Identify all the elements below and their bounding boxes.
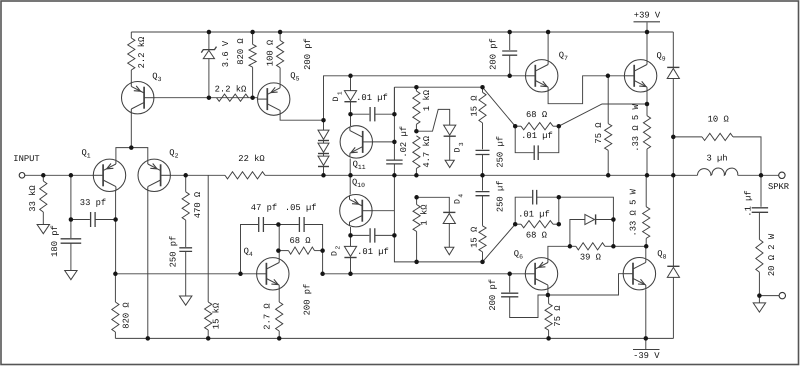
diode parallel 39 Ω (585, 214, 595, 224)
svg-text:D: D (454, 147, 463, 152)
arrow under D4 (445, 247, 454, 255)
node .01µf spine (392, 112, 397, 117)
wire Q8 collector (645, 246, 647, 258)
wire (759, 295, 779, 297)
resistor .33 Ω 5 W bottom (643, 207, 650, 239)
node emitter tie (129, 145, 134, 150)
resistor 820 Ω top (249, 44, 256, 67)
svg-text:47 pf: 47 pf (251, 203, 277, 213)
node 68Ω top left (513, 124, 518, 129)
wire mid line 22k to coil (265, 174, 698, 176)
node Q6 collector (546, 293, 551, 298)
wire Q4 collector (278, 225, 280, 260)
wire (548, 330, 550, 338)
catch diode upper (667, 69, 679, 79)
wire (95, 219, 116, 221)
wire Q3 collector (130, 111, 132, 148)
node 68Ω top right (557, 124, 562, 129)
node diode cathode (611, 217, 616, 222)
zener diode 3.6 V (203, 50, 214, 58)
node 39Ω right (611, 244, 616, 249)
ground under 33 kΩ (37, 225, 49, 234)
INPUT terminal (19, 173, 25, 179)
wire (185, 220, 187, 247)
node zener base line (207, 95, 212, 100)
node 75Ω rail (546, 336, 551, 341)
wire (509, 55, 511, 76)
transistor Q2 (138, 159, 171, 191)
svg-text:.01 µf: .01 µf (356, 93, 388, 103)
node 1k top (414, 85, 419, 90)
wire coil to SPKR terminal (738, 174, 779, 176)
wire (758, 212, 760, 239)
wire (515, 223, 521, 225)
wire (71, 219, 90, 221)
wire (570, 220, 585, 247)
wire (278, 250, 288, 252)
wire Q4 base to 47 pf (241, 225, 259, 274)
diagonal wire to 68 Ω bottom (483, 224, 516, 262)
wire (607, 76, 609, 124)
wire (553, 125, 559, 127)
svg-text:820 Ω: 820 Ω (122, 302, 132, 329)
resistor 15 Ω bottom (479, 226, 486, 252)
wire -39V stem (645, 338, 647, 349)
svg-text:200 pf: 200 pf (488, 279, 498, 311)
node 820-rail (250, 30, 255, 35)
wire (323, 154, 325, 157)
wire spine upper (393, 87, 395, 160)
resistor 75 Ω top (605, 124, 612, 151)
wire (605, 245, 614, 247)
node Q1C drive line (113, 272, 118, 277)
svg-text:.01 µf: .01 µf (518, 209, 550, 219)
wire (645, 238, 647, 246)
wire Q10 collector (350, 227, 352, 246)
wire to Q8 collector (613, 245, 646, 247)
wire Q11 base (363, 141, 395, 143)
wire (114, 332, 116, 338)
wire node to Q7 base (324, 76, 527, 120)
wire (70, 175, 72, 238)
capacitor .1 µf (752, 208, 768, 213)
capacitor .01 µf upper (370, 107, 375, 121)
node 33pf-180pf (69, 217, 74, 222)
wire Q11/Q10 emitters (349, 159, 351, 195)
svg-text:68 Ω: 68 Ω (526, 231, 548, 241)
wire +39V stem (646, 23, 648, 33)
node 100-rail (278, 30, 283, 35)
wire (537, 197, 559, 224)
node stack-mid (321, 173, 326, 178)
node .01µf bottom right (557, 195, 562, 200)
node 4.7k-mid (414, 173, 419, 178)
wire (130, 32, 132, 38)
node 33pf-Q1C (113, 217, 118, 222)
wire (538, 126, 559, 153)
svg-text:.02 µf: .02 µf (399, 126, 409, 158)
wire (304, 225, 323, 251)
wire (448, 223, 450, 247)
resistor 15 kΩ (205, 302, 212, 330)
svg-text:.05 µf: .05 µf (285, 203, 317, 213)
svg-text:15 kΩ: 15 kΩ (211, 302, 221, 329)
node Q9 base 75Ω (606, 74, 611, 79)
capacitor 250 µf top (476, 150, 490, 154)
wire Q1 collector node to Q4 base (115, 273, 267, 275)
wire bias box top (394, 86, 482, 88)
node zobel return (757, 293, 762, 298)
node 200pf-rail (507, 30, 512, 35)
wire Q9 collector (646, 32, 648, 61)
transistor Q11 (340, 126, 373, 158)
capacitor 250 µf bottom (476, 192, 490, 196)
wire (672, 32, 674, 67)
wire (415, 124, 417, 131)
svg-text:1: 1 (336, 91, 343, 95)
wire (553, 223, 559, 225)
node 15k rail (206, 336, 211, 341)
svg-text:2.7 Ω: 2.7 Ω (263, 303, 273, 330)
node Q11 base (392, 140, 397, 145)
diode stack D-c (318, 156, 329, 165)
node Q5C diode stack (321, 118, 326, 123)
inductor 3 µh (698, 168, 738, 175)
wire (350, 76, 352, 91)
capacitor 250 pf (179, 248, 192, 252)
node 15Ω top (480, 85, 485, 90)
ground under 250 pf (180, 296, 192, 305)
node 68Ω bottom left (513, 222, 518, 227)
transistor Q10 (340, 195, 373, 227)
wire (208, 32, 210, 49)
transistor Q8 (623, 258, 656, 290)
wire 200 pf loop (510, 295, 548, 318)
diode D1 (344, 91, 356, 101)
wire Q1-Q2 emitters (116, 148, 148, 161)
wire (733, 137, 761, 175)
diode stack D-b (318, 143, 329, 152)
svg-text:.33 Ω 5 W: .33 Ω 5 W (628, 188, 638, 236)
transistor Q9 (624, 60, 657, 92)
wire (323, 167, 325, 176)
wire (449, 136, 451, 160)
wire (393, 164, 395, 175)
resistor 820 Ω lower (112, 302, 119, 332)
node 200pf-Q6 base (507, 272, 512, 277)
wire +39V rail (131, 31, 673, 33)
node 33k input (41, 173, 46, 178)
wire 15 kΩ feed (207, 175, 209, 302)
svg-text:68 Ω: 68 Ω (526, 110, 548, 120)
svg-text:.1 µf: .1 µf (744, 190, 754, 216)
node Q2 base (183, 173, 188, 178)
node 2.7Ω rail (277, 336, 282, 341)
resistor 15 Ω top (479, 92, 486, 123)
wire Q2 base to 22k (161, 174, 225, 176)
wire (263, 224, 298, 226)
node 250µf-mid (480, 173, 485, 178)
node diode col-mid (671, 173, 676, 178)
svg-text:4.7 kΩ: 4.7 kΩ (422, 135, 432, 167)
svg-text:75 Ω: 75 Ω (553, 305, 563, 327)
resistor 100 Ω (277, 40, 284, 67)
node Q4 collector 68Ω (276, 248, 281, 253)
wire (482, 175, 484, 190)
wire (515, 126, 533, 153)
wire (672, 277, 674, 338)
node Q2C rail (146, 336, 151, 341)
svg-text:22 kΩ: 22 kΩ (238, 154, 265, 164)
svg-text:15 Ω: 15 Ω (470, 95, 480, 117)
wire bias box bottom (394, 175, 482, 262)
wire jog to D3 (416, 109, 449, 131)
svg-text:20 Ω 2 W: 20 Ω 2 W (767, 233, 777, 276)
wire (570, 245, 576, 247)
svg-text:820 Ω: 820 Ω (236, 38, 246, 65)
svg-text:200 pf: 200 pf (302, 284, 312, 316)
svg-text:100 Ω: 100 Ω (266, 39, 276, 66)
node 1k bottom top (414, 195, 419, 200)
wire (672, 79, 674, 137)
svg-text:3.6 V: 3.6 V (221, 40, 231, 67)
wire -39V rail (115, 337, 673, 339)
node +39V (645, 30, 650, 35)
wire (323, 120, 325, 130)
svg-text:200 pf: 200 pf (303, 38, 313, 70)
ground under 180 pf (65, 271, 77, 280)
resistor 1 kΩ top (413, 91, 420, 124)
wire Q10 base (362, 210, 394, 212)
wire (672, 175, 674, 266)
resistor 10 Ω (702, 133, 733, 140)
wire (482, 123, 484, 149)
wire (278, 331, 280, 338)
capacitor 33 pf (91, 212, 96, 227)
wire (375, 87, 395, 114)
transistor Q3 (122, 82, 155, 114)
node zener-rail (207, 30, 212, 35)
node spine-mid (392, 173, 397, 178)
transistor Q6 (525, 258, 558, 290)
wire (672, 137, 674, 175)
diagonal wire to 68 Ω top (483, 87, 516, 126)
svg-text:.01 µf: .01 µf (357, 247, 389, 257)
svg-text:250 pf: 250 pf (169, 236, 179, 268)
node Q8E -39V (644, 336, 649, 341)
resistor 2.7 Ω (276, 302, 283, 331)
node D2 bottom (348, 272, 353, 277)
node D2 .01µf (348, 233, 353, 238)
node 1k-4.7k (414, 129, 419, 134)
resistor 20 Ω 2 W (756, 239, 763, 272)
node 47pf-.05µf (276, 222, 281, 227)
node Q8 collector (644, 244, 649, 249)
wire (42, 212, 44, 225)
svg-text:2: 2 (335, 246, 342, 250)
svg-text:200 pf: 200 pf (489, 38, 499, 70)
wire (509, 32, 511, 50)
wire (607, 150, 609, 175)
svg-text:180 pf: 180 pf (50, 225, 60, 257)
wire (515, 125, 521, 127)
wire (415, 169, 417, 176)
resistor 4.7 kΩ (413, 136, 420, 169)
wire Q8 emitter (645, 290, 647, 339)
node zobel-mid (759, 173, 764, 178)
wire (375, 234, 395, 236)
wire (758, 272, 760, 296)
catch diode lower (667, 267, 679, 277)
wire Q6 collector to Q8 base (548, 274, 624, 295)
wire (416, 197, 418, 204)
wire (351, 234, 370, 236)
transistor Q1 (93, 159, 126, 191)
capacitor 200 pf top (502, 51, 517, 55)
svg-text:39 Ω: 39 Ω (580, 252, 602, 262)
resistor 22 kΩ (225, 172, 265, 179)
capacitor .01 µf bottom 68 (533, 190, 537, 205)
wire Q5 collector (280, 115, 323, 121)
node 180pf input (69, 173, 74, 178)
wire (482, 87, 484, 92)
node 68Ω right Q4 (320, 248, 325, 253)
output return terminal (779, 292, 785, 298)
wire Q3 emitter (130, 70, 132, 85)
node 15Ω bottom (480, 260, 485, 265)
resistor 33 kΩ input (40, 181, 47, 212)
resistor 470 Ω (182, 192, 189, 220)
resistor 1 kΩ bottom (413, 205, 420, 232)
wire (351, 113, 370, 115)
wire (548, 295, 550, 304)
wire (416, 232, 418, 262)
wire (350, 258, 352, 274)
svg-text:75 Ω: 75 Ω (594, 122, 604, 144)
resistor 39 Ω (576, 243, 605, 250)
wire (185, 175, 187, 192)
svg-text:SPKR: SPKR (768, 182, 790, 192)
svg-text:2.2 kΩ: 2.2 kΩ (215, 84, 247, 94)
wire Q2 collector to -39V (147, 190, 149, 338)
wire (515, 197, 532, 224)
capacitor .05 µf (299, 217, 304, 232)
wire Q3 base to Q5 base (151, 97, 259, 99)
wire 68 Ω to 39 Ω net (559, 197, 614, 246)
wire (645, 175, 647, 206)
wire (279, 32, 281, 40)
svg-text:INPUT: INPUT (13, 154, 39, 164)
diode stack D-a (318, 130, 329, 139)
node Q10Q11 emitters (348, 173, 353, 178)
node 200pf-Q7base (507, 74, 512, 79)
node D1 .01µf (348, 112, 353, 117)
wire Q4 emitter (278, 289, 280, 302)
resistor 68 Ω at Q4 (289, 247, 315, 254)
svg-text:2.2 kΩ: 2.2 kΩ (137, 36, 147, 68)
wire Q5 emitter (279, 68, 281, 84)
svg-text:10 Ω: 10 Ω (708, 115, 730, 125)
node 39Ω left (568, 244, 573, 249)
transistor Q4 (256, 258, 289, 290)
svg-text:D: D (332, 96, 341, 101)
capacitor .02 µf (386, 160, 402, 164)
wire (42, 175, 44, 181)
wire (596, 219, 614, 221)
svg-text:+39 V: +39 V (634, 11, 661, 21)
diode D3 (444, 125, 456, 135)
capacitor .01 µf lower (370, 228, 375, 242)
wire D1 to Q11 collector (350, 102, 352, 126)
capacitor 47 pf (259, 217, 264, 232)
wire (646, 104, 648, 116)
svg-text:470 Ω: 470 Ω (193, 191, 203, 218)
svg-text:68 Ω: 68 Ω (289, 236, 311, 246)
node .05µf net drive line (320, 272, 325, 277)
wire (415, 87, 417, 91)
wire (70, 243, 72, 270)
wire (315, 250, 323, 252)
node 75Ω-mid (606, 173, 611, 178)
wire (252, 32, 254, 44)
wire (208, 59, 210, 98)
svg-text:33 pf: 33 pf (80, 198, 106, 208)
wire input to Q1 base (25, 174, 95, 176)
node 68Ω bottom right (557, 222, 562, 227)
wire (114, 274, 116, 302)
transistor Q5 (257, 83, 290, 115)
node Q9 emitter (645, 102, 650, 107)
svg-text:250 µf: 250 µf (495, 180, 505, 212)
resistor 2.2 kΩ horizontal (217, 94, 249, 101)
diagonal wire 68 Ω to Q9 emitter (559, 104, 647, 126)
svg-text:3 µh: 3 µh (706, 154, 727, 164)
wire (509, 274, 511, 293)
svg-text:1 kΩ: 1 kΩ (422, 89, 432, 111)
capacitor .01 µf top 68 (534, 145, 538, 160)
resistor 75 Ω bottom (545, 304, 552, 331)
node Q7C-rail (546, 30, 551, 35)
wire Q1 collector (115, 190, 117, 274)
wire (323, 141, 325, 144)
wire Q7 collector (547, 32, 549, 62)
wire to D4 (417, 197, 450, 212)
wire (482, 155, 484, 176)
node D1 top (348, 74, 353, 79)
wire Q9 emitter (646, 90, 648, 104)
wire (482, 252, 484, 262)
node 10Ω left (671, 135, 676, 140)
svg-text:.33 Ω 5 W: .33 Ω 5 W (631, 104, 641, 152)
resistor 2.2 kΩ vertical (128, 38, 135, 70)
node .33Ω-mid (645, 173, 650, 178)
wire Q7 emitter to Q9 base (548, 76, 626, 104)
node 820 base line (250, 95, 255, 100)
wire (252, 67, 254, 98)
wire (760, 175, 762, 207)
svg-text:.01 µf: .01 µf (521, 131, 553, 141)
svg-text:1 kΩ: 1 kΩ (420, 204, 430, 226)
wire (185, 251, 187, 296)
node .01µf lower spine (392, 233, 397, 238)
wire (673, 136, 702, 138)
resistor .33 Ω 5 W top (643, 116, 650, 149)
svg-text:3: 3 (458, 142, 465, 146)
diode D2 (344, 246, 356, 256)
wire (646, 149, 648, 175)
node 1k bottom (414, 260, 419, 265)
svg-text:33 kΩ: 33 kΩ (28, 185, 38, 212)
